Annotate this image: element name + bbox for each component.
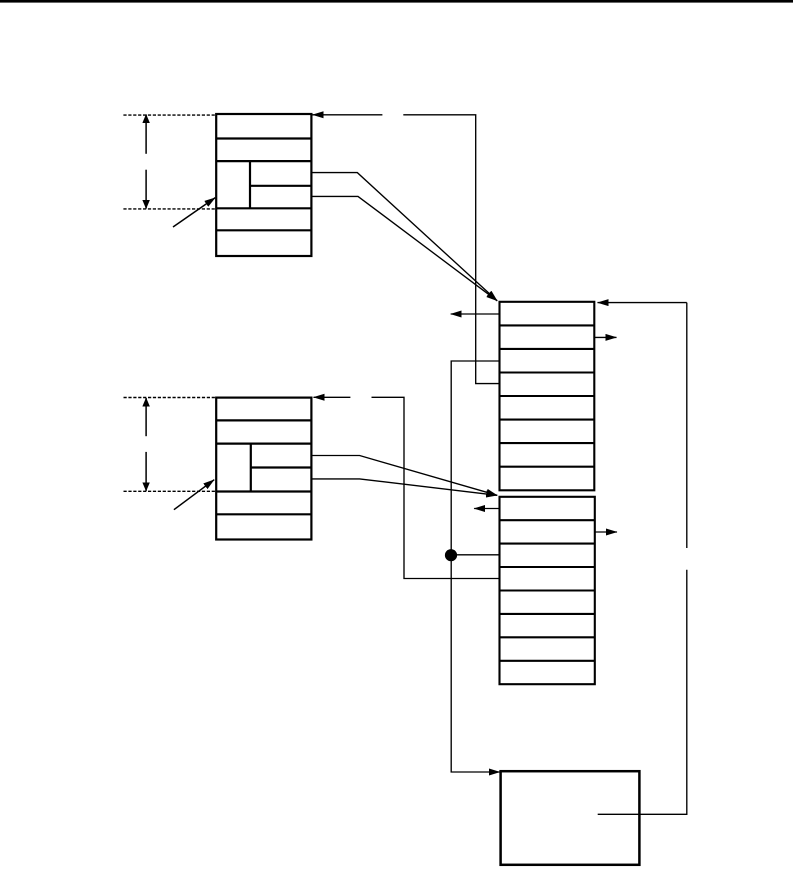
diagonal pointer arrow into block B left edge <box>174 480 214 510</box>
right rail vertical lower segment into bottom box <box>598 570 687 815</box>
arrow right out of stack1 row2 <box>594 336 616 338</box>
dimension arrow B upper half (points up) <box>145 398 147 436</box>
top border rule <box>0 0 793 3</box>
arrow into stack1 top-right from right rail <box>598 302 687 304</box>
wire stack1-row4 to block A top (with gap), arrow into A <box>313 115 500 384</box>
diagonal pointer arrow into block A left edge <box>173 198 215 227</box>
wire stack2-row4 to block B top (with gap), arrow into B <box>314 397 500 578</box>
junction dot on long vertical <box>445 549 457 561</box>
task block A (upper record box) <box>216 114 311 256</box>
arrow left out of stack2 row1 <box>474 508 499 510</box>
wire stack1 row3 down to bottom box (long vertical), arrow into bottom box <box>451 361 500 772</box>
dimension arrow A lower half (points down) <box>145 170 147 209</box>
dimension arrow A upper half (points up) <box>145 115 147 154</box>
queue stack 2 (lower list of cells) <box>500 497 595 684</box>
dashed extent line at block A divider <box>123 208 216 210</box>
dashed extent line at block A top <box>123 114 216 116</box>
arrow right out of stack2 row2 <box>595 531 617 533</box>
wire block B cell3 to stack2 top-left corner <box>311 456 497 496</box>
dashed extent line at block B top <box>124 397 217 399</box>
task block B (lower record box) <box>216 398 311 540</box>
dashed extent line at block B divider <box>124 490 217 492</box>
right rail vertical upper segment <box>686 303 688 548</box>
wire block A cell3 to stack1 top-left corner <box>311 173 497 301</box>
wire block B cell4 to stack2 top-left corner <box>311 479 497 495</box>
wire block A cell4 to stack1 top-left corner <box>311 196 497 300</box>
arrow left out of stack1 row1 <box>451 313 500 315</box>
wire junction dot to stack2 row3 <box>451 554 499 556</box>
queue stack 1 (upper list of cells) <box>500 302 595 491</box>
dimension arrow B lower half (points down) <box>145 452 147 491</box>
bottom box <box>501 771 640 865</box>
